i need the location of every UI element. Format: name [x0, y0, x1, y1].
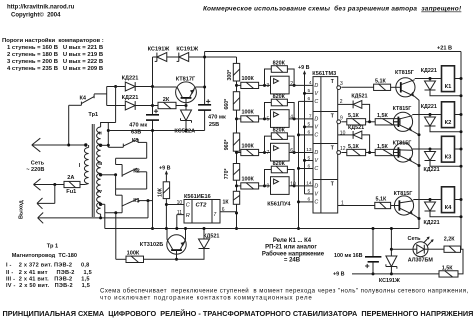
svg-text:25В: 25В	[209, 122, 219, 128]
svg-text:Магнитопровод ТС-180: Магнитопровод ТС-180	[12, 253, 77, 259]
primary winding I	[84, 148, 88, 184]
svg-text:7: 7	[309, 114, 312, 120]
svg-text:13: 13	[306, 147, 312, 153]
svg-text:820К: 820К	[273, 128, 286, 134]
svg-text:4: 4	[309, 80, 312, 86]
svg-text:9: 9	[267, 184, 270, 190]
V pin stub 2	[305, 126, 314, 128]
wire: tap III stub	[101, 174, 116, 176]
svg-text:Реле К1 ... К4: Реле К1 ... К4	[273, 238, 312, 244]
resistor 1,5К (K3 base)	[375, 149, 400, 155]
svg-text:+9 В: +9 В	[159, 166, 171, 172]
svg-text:D: D	[314, 184, 318, 190]
svg-text:10: 10	[340, 130, 346, 136]
node: divider tap 3	[235, 151, 238, 154]
svg-text:820К: 820К	[273, 60, 286, 66]
svg-text:Сеть: Сеть	[31, 160, 45, 166]
bottom link wire y130.5	[108, 130, 204, 132]
svg-text:КД221: КД221	[122, 95, 139, 101]
svg-text:100К: 100К	[242, 177, 255, 183]
wire: 1К bottom to clock bus	[236, 204, 238, 228]
svg-text:К1: К1	[445, 84, 453, 90]
emitter joins bus	[413, 215, 419, 219]
svg-text:470 мк: 470 мк	[208, 114, 226, 120]
resistor 820К (comparator 2 feedback)	[271, 99, 287, 106]
svg-text:C: C	[314, 133, 318, 139]
IC D1 output pin 12 (bubble)	[337, 151, 341, 155]
svg-text:К4: К4	[445, 205, 453, 211]
resistor 5,1К (stage2 input)	[341, 121, 346, 123]
svg-text:КД221: КД221	[122, 75, 139, 81]
relay +21V rail	[460, 52, 462, 250]
node: junction Сеть bottom / Выход top	[53, 183, 56, 186]
svg-text:820К: 820К	[273, 94, 286, 100]
svg-text:12: 12	[340, 146, 346, 152]
top +21V wire	[205, 51, 461, 53]
collector wire to relay &#1050;3	[412, 148, 461, 150]
relay coil &#1050;2	[442, 102, 455, 128]
svg-text:10К: 10К	[157, 187, 163, 197]
svg-text:IV: IV	[97, 189, 102, 195]
svg-text:КД221: КД221	[421, 68, 437, 74]
collector wire to relay &#1050;1	[415, 78, 461, 80]
emitter joins bus	[415, 97, 419, 101]
C pin stub 1	[299, 100, 314, 102]
svg-text:АЛ307БМ: АЛ307БМ	[408, 258, 434, 264]
svg-text:300*: 300*	[227, 69, 233, 81]
resistor 100К (comparator 2 input)	[237, 118, 241, 120]
svg-text:770*: 770*	[224, 168, 230, 180]
svg-text:IV - 2 х 50 вит. ПЭВ-2: IV - 2 х 50 вит. ПЭВ-2 1,5	[6, 283, 90, 289]
IC D1 output pin 9 (bubble)	[337, 120, 341, 124]
svg-text:+9 В: +9 В	[298, 65, 310, 71]
svg-text:КД221: КД221	[424, 220, 440, 226]
wire: fuse to primary	[80, 184, 85, 186]
svg-text:4 ступень = 235 В U вых = 20: 4 ступень = 235 В U вых = 209 В	[7, 66, 103, 72]
node: divider tap 2	[235, 117, 238, 120]
resistor 820К (comparator 4 feedback)	[271, 166, 287, 173]
svg-text:5,1К: 5,1К	[348, 113, 359, 119]
svg-text:~ 220В: ~ 220В	[26, 167, 44, 173]
emitter joins bus	[412, 131, 419, 135]
svg-text:960*: 960*	[224, 139, 230, 151]
svg-text:100К: 100К	[242, 143, 255, 149]
svg-text:+9 В: +9 В	[333, 271, 345, 277]
svg-text:1,5К: 1,5К	[377, 144, 388, 150]
vertical x107: rectifier feeds	[106, 87, 108, 106]
svg-text:D: D	[314, 150, 318, 156]
svg-text:100К: 100К	[242, 110, 255, 116]
relay coil &#1050;4	[442, 187, 455, 213]
wire: zener chain to trimmer 300*	[236, 57, 238, 63]
left DC rail x152.5	[152, 57, 154, 115]
svg-text:1,5К: 1,5К	[377, 113, 388, 119]
svg-text:2,2К: 2,2К	[444, 236, 455, 242]
svg-text:III - 2 х 41 вит. ПЭВ-2: III - 2 х 41 вит. ПЭВ-2 1,5	[6, 276, 90, 282]
resistor 5,1К (K1 base)	[374, 84, 391, 90]
vertical x115.6 upper	[114, 85, 117, 88]
C pin stub 2	[299, 134, 314, 136]
wire: K4 fixed contact to rectifier wire	[94, 93, 107, 95]
svg-text:C: C	[314, 99, 318, 105]
svg-text:C: C	[314, 200, 318, 206]
node: VT1 base	[185, 104, 188, 107]
wire: comparator 2 output to D input	[289, 118, 313, 120]
V pin stub 4	[305, 193, 314, 195]
resistor 100К (comparator 3 input)	[237, 152, 241, 154]
svg-text:5,1К: 5,1К	[348, 144, 359, 150]
svg-text:КС191Ж: КС191Ж	[148, 47, 171, 53]
collector wire to relay &#1050;4	[413, 199, 461, 201]
wire: comparator 4 output to D input	[289, 185, 313, 187]
svg-text:10: 10	[177, 200, 183, 206]
svg-text:C: C	[314, 166, 318, 172]
vertical x108.3 (tap II feed to K3)	[107, 123, 109, 148]
svg-text:Сеть: Сеть	[408, 236, 422, 242]
svg-text:100К: 100К	[127, 250, 140, 256]
trimmer R 1К	[236, 180, 238, 191]
svg-text:3: 3	[340, 81, 343, 87]
svg-text:5,1К: 5,1К	[376, 196, 387, 202]
IC D1 output pin 3 (bubble)	[337, 86, 341, 90]
comparator U3 (К561ПУ4 element)	[271, 143, 290, 161]
relay coil &#1050;1	[442, 66, 455, 92]
wire: 1,5К to K2 base	[393, 121, 400, 123]
V pin stub 3	[305, 160, 314, 162]
svg-text:К561ПУ4: К561ПУ4	[267, 201, 291, 207]
resistor 100К (comparator 1 input)	[237, 84, 241, 86]
fuse Fu1 2A	[64, 181, 80, 187]
input terminal arrows Сеть ~220В	[32, 138, 41, 145]
emitter joins bus	[412, 162, 419, 166]
wire: vertical linking Сеть bottom to Выход top	[54, 185, 56, 204]
trimmer R 770*	[236, 151, 238, 163]
trimmer R 660*	[236, 81, 238, 92]
wire: Выход bottom riser	[147, 201, 149, 218]
primary bottom lead to fuse wire	[85, 184, 89, 185]
svg-text:К2: К2	[445, 120, 452, 126]
sense line x115.8 down to 100K	[115, 213, 117, 260]
svg-text:1К: 1К	[223, 200, 230, 206]
capacitor 470мк 25В	[198, 104, 211, 106]
svg-text:КТ815Г: КТ815Г	[393, 141, 412, 147]
svg-text:что исключает подгорание конта: что исключает подгорание контактов комму…	[100, 295, 313, 302]
C pin stub 3	[299, 168, 314, 170]
comparator U4 (К561ПУ4 element)	[271, 177, 290, 195]
svg-text:КС522А: КС522А	[174, 129, 195, 135]
svg-text:= 24В: = 24В	[284, 258, 301, 264]
svg-text:Т: Т	[331, 182, 334, 188]
svg-text:КД521: КД521	[351, 93, 367, 99]
svg-text:КД521: КД521	[348, 125, 364, 131]
resistor 820К (comparator 1 feedback)	[271, 66, 287, 73]
collector wire to relay &#1050;2	[412, 114, 461, 116]
capacitor 470мк 63В	[146, 114, 159, 116]
trimmer R 960*	[236, 110, 238, 133]
svg-text:5,1К: 5,1К	[375, 79, 386, 85]
comparator U2 (К561ПУ4 element)	[271, 110, 290, 128]
relay coil &#1050;3	[442, 136, 455, 162]
svg-text:КС191Ж: КС191Ж	[176, 47, 199, 53]
svg-text:3 ступень = 200 В U вых = 22: 3 ступень = 200 В U вых = 222 В	[7, 59, 103, 65]
svg-text:660*: 660*	[224, 98, 230, 110]
trimmer R 300*	[233, 63, 239, 81]
+21V rail x204.6	[204, 52, 206, 105]
node: divider tap 4	[235, 184, 238, 187]
svg-text:5: 5	[267, 117, 270, 123]
svg-text:Пороги настройки компараторов: Пороги настройки компараторов :	[2, 37, 104, 44]
svg-text:Выход: Выход	[19, 200, 25, 219]
secondary bottom lead to output wire	[100, 214, 102, 218]
secondary winding II III IV	[97, 127, 101, 214]
svg-text:14: 14	[306, 181, 312, 187]
svg-text:R: R	[186, 213, 190, 219]
svg-text:КД221: КД221	[421, 104, 437, 110]
svg-text:Т: Т	[331, 146, 334, 152]
svg-text:6: 6	[290, 148, 293, 154]
main clock/common bus y228.5	[105, 228, 419, 230]
wire: 5,1К to K4 base	[391, 205, 395, 207]
svg-text:Рабочее напряжение: Рабочее напряжение	[262, 250, 325, 257]
svg-text:КТ3102Б: КТ3102Б	[140, 242, 163, 248]
resistor 100К (comparator 4 input)	[237, 185, 241, 187]
svg-text:К3: К3	[445, 154, 453, 160]
svg-text:СТ2: СТ2	[196, 202, 208, 208]
svg-text:3: 3	[267, 83, 270, 89]
zener chain wire y57	[153, 56, 237, 58]
svg-text:100К: 100К	[242, 76, 255, 82]
secondary tap dots	[99, 144, 102, 147]
LED emission arrows	[424, 237, 430, 243]
wire: tap II stub	[101, 144, 109, 146]
resistor 5,1К (K4 base)	[375, 202, 391, 208]
output terminal arrows Выход	[37, 198, 43, 203]
clock bus to C pins	[298, 101, 300, 228]
svg-text:Fu1: Fu1	[66, 189, 76, 195]
svg-text:III: III	[98, 161, 103, 167]
svg-text:Коммерческое использование схе: Коммерческое использование схемы без раз…	[203, 5, 462, 13]
svg-text:4: 4	[290, 115, 293, 121]
emitter bus	[418, 100, 420, 229]
resistor 820К (comparator 3 feedback)	[271, 133, 287, 140]
svg-text:2: 2	[290, 81, 293, 87]
secondary top lead	[101, 123, 116, 128]
wire: tap IV stub	[101, 203, 105, 205]
zener VD5 КС522А	[181, 110, 192, 121]
svg-text:D: D	[314, 83, 318, 89]
node: divider tap 1	[235, 84, 238, 87]
wire: pin3 to 5,1К K1	[341, 86, 373, 88]
svg-text:КС191Ж: КС191Ж	[379, 278, 400, 284]
svg-text:9: 9	[340, 115, 343, 121]
wire: 1,5К to K3 base	[393, 152, 400, 154]
wire: comparator 3 output to D input	[289, 152, 313, 154]
svg-text:Т: Т	[331, 79, 334, 85]
svg-text:D: D	[314, 117, 318, 123]
svg-text:КТ815Г: КТ815Г	[393, 106, 412, 112]
svg-text:Т: Т	[331, 114, 334, 120]
svg-text:Тр1: Тр1	[88, 112, 98, 118]
resistor 10К	[163, 182, 169, 199]
svg-text:ПРИНЦИПИАЛЬНАЯ СХЕМА ЦИФРОВОГ: ПРИНЦИПИАЛЬНАЯ СХЕМА ЦИФРОВОГО РЕЛЕЙНО -…	[3, 309, 474, 318]
svg-text:+21 В: +21 В	[437, 46, 452, 52]
svg-text:http://kravitnik.narod.ru: http://kravitnik.narod.ru	[7, 5, 75, 11]
svg-text:820К: 820К	[273, 161, 286, 167]
svg-text:КТ815Г: КТ815Г	[395, 70, 414, 76]
V pin stub 1	[305, 92, 314, 94]
wire: K4 pivot to Сеть line	[68, 105, 70, 145]
resistor 1,5К (K2 base)	[375, 119, 400, 125]
svg-text:100 мк 16В: 100 мк 16В	[334, 253, 363, 259]
svg-text:I - 2 х 372 вит. ПЭВ-2: I - 2 х 372 вит. ПЭВ-2 0,8	[6, 263, 89, 269]
wire: comparator 1 output to D input	[289, 84, 313, 86]
svg-text:КД221: КД221	[424, 167, 440, 173]
svg-text:1 ступень = 160 В U вых = 22: 1 ступень = 160 В U вых = 221 В	[7, 45, 103, 51]
svg-text:РП-21 или аналог: РП-21 или аналог	[265, 245, 317, 251]
resistor 5,1К (stage3 input)	[341, 152, 346, 154]
svg-text:Copyright© 2004: Copyright© 2004	[11, 12, 61, 19]
transformer core	[91, 124, 93, 217]
svg-text:7: 7	[267, 150, 270, 156]
svg-text:470 мк: 470 мк	[129, 122, 147, 128]
wire: K1 pivot down	[121, 207, 123, 212]
svg-text:10: 10	[290, 182, 296, 188]
svg-text:Схема обеспечивает переключен: Схема обеспечивает переключение ступеней…	[100, 288, 469, 295]
svg-text:11: 11	[177, 210, 182, 216]
svg-text:Тр 1: Тр 1	[47, 243, 58, 249]
VT base lead	[176, 250, 178, 259]
svg-text:II - 2 х 41 вит ПЭВ-2: II - 2 х 41 вит ПЭВ-2 1,5	[6, 270, 92, 276]
svg-text:2 ступень = 180 В U вых = 21: 2 ступень = 180 В U вых = 219 В	[7, 52, 103, 58]
comparator U1 (К561ПУ4 element)	[271, 76, 290, 94]
C pin stub 4	[299, 201, 314, 203]
svg-text:2А: 2А	[67, 175, 74, 181]
